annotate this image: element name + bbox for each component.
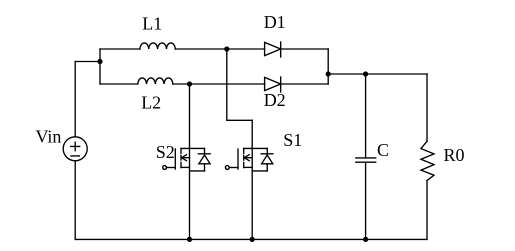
wire: capacitor top lead (365, 74, 367, 158)
wire: L1 anode lead (100, 48, 140, 50)
node: capacitor bottom on rail (363, 237, 368, 242)
wire: D2 cathode to join (281, 83, 329, 85)
wire: left rail horizontal to input junction (75, 61, 100, 63)
wire: L1 to D1 (175, 48, 264, 50)
node: input junction (97, 59, 102, 64)
node: S2 source on bottom rail (187, 237, 192, 242)
svg-text:C: C (377, 140, 389, 160)
wire: S2 drain vertical (189, 84, 191, 239)
wire: S1 drain jog from L1 tap (227, 49, 252, 120)
svg-text:R0: R0 (444, 145, 465, 165)
resistor R0 (421, 141, 434, 180)
wire: output rail (328, 73, 427, 75)
wire: R0 top lead (426, 74, 428, 141)
node: L1 / S1-drain tap (224, 46, 229, 51)
svg-text:D2: D2 (264, 90, 286, 110)
voltage source Vin (63, 137, 87, 161)
wire: D1 cathode to join (281, 48, 329, 50)
node: output tap (326, 71, 331, 76)
svg-text:L2: L2 (141, 92, 161, 112)
wire: L2 to D2 (173, 83, 265, 85)
svg-text:S1: S1 (283, 130, 302, 150)
wire: input branch vertical (99, 49, 101, 84)
wire: left rail vertical below Vin (74, 161, 76, 240)
capacitor C (356, 158, 376, 162)
transistor S1 (MOSFET with body diode) (225, 148, 272, 171)
diode D1 (265, 42, 281, 57)
svg-text:S2: S2 (156, 142, 175, 162)
wire: R0 bottom lead (426, 181, 428, 240)
transistor S2 (MOSFET with body diode) (163, 148, 210, 171)
diode D2 (265, 77, 281, 92)
node: S1 source on bottom rail (250, 237, 255, 242)
wire: left rail vertical above Vin (74, 62, 76, 137)
node: L2 / S2-drain tap (187, 81, 192, 86)
node: capacitor top tap (363, 71, 368, 76)
inductor L1 (140, 43, 175, 49)
wire: diode join vertical (327, 49, 329, 84)
wire: capacitor bottom lead (365, 162, 367, 239)
wire: L2 anode lead (100, 83, 138, 85)
svg-text:D1: D1 (264, 12, 286, 32)
inductor L2 (138, 78, 173, 84)
svg-text:L1: L1 (142, 14, 162, 34)
wire: bottom rail (75, 238, 427, 240)
wire: S1 drain vertical (251, 120, 253, 239)
svg-text:Vin: Vin (36, 127, 62, 147)
